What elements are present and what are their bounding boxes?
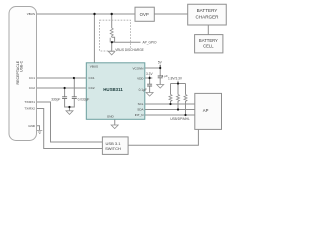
svg-text:SCL: SCL (138, 102, 144, 106)
svg-text:CC2: CC2 (29, 86, 35, 90)
svg-text:TX/RX2: TX/RX2 (24, 107, 35, 111)
svg-text:HUSB311: HUSB311 (103, 87, 123, 92)
svg-text:VBUS: VBUS (27, 12, 35, 16)
svg-text:VBUS DISCHARGE: VBUS DISCHARGE (115, 48, 144, 52)
svg-text:OVP: OVP (140, 12, 149, 17)
svg-text:VCONN: VCONN (132, 66, 143, 70)
svg-text:CC1: CC1 (29, 76, 35, 80)
svg-text:CC2: CC2 (89, 86, 95, 90)
svg-text:BATTERY: BATTERY (197, 8, 218, 13)
svg-text:VDD: VDD (137, 76, 144, 80)
svg-text:330pF: 330pF (51, 98, 60, 102)
svg-text:INT_N: INT_N (135, 113, 144, 117)
svg-text:0.1μF: 0.1μF (139, 88, 147, 92)
svg-text:BATTERY: BATTERY (199, 38, 218, 43)
svg-text:GND: GND (28, 124, 36, 128)
svg-text:0.033μF: 0.033μF (78, 98, 90, 102)
svg-text:TX/RX1: TX/RX1 (24, 100, 35, 104)
svg-text:3.3V: 3.3V (146, 72, 153, 76)
svg-text:1.8V/3.3V: 1.8V/3.3V (168, 76, 183, 80)
svg-text:GND: GND (107, 114, 115, 118)
svg-text:USB/DP/MHL: USB/DP/MHL (170, 117, 190, 121)
svg-text:CELL: CELL (203, 44, 214, 49)
svg-text:VBUS: VBUS (90, 64, 98, 68)
svg-text:5V: 5V (158, 61, 163, 65)
svg-text:SWITCH: SWITCH (105, 146, 121, 151)
svg-text:CHARGER: CHARGER (196, 15, 220, 20)
svg-text:CC1: CC1 (89, 76, 95, 80)
svg-text:AP_GPIO: AP_GPIO (143, 40, 158, 44)
svg-text:AP: AP (203, 108, 209, 113)
svg-text:SDA: SDA (137, 108, 144, 112)
